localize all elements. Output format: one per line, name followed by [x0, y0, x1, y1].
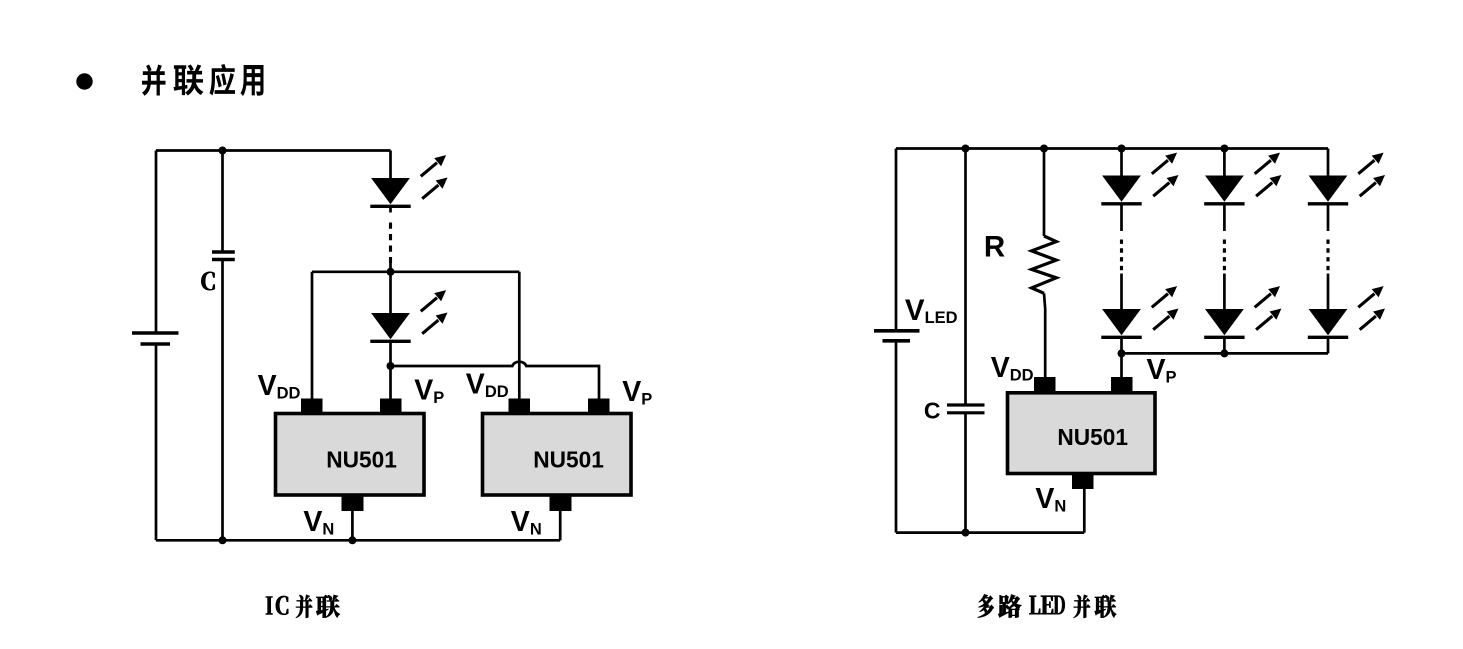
- wire: U2 VDD pin drop: [518, 272, 521, 399]
- resistor R zigzag: [1032, 236, 1057, 293]
- battery B1: [132, 333, 179, 344]
- wire: D2 cathode to node B: [389, 342, 392, 367]
- LED D4 (string 1 bottom): [1101, 286, 1178, 337]
- wire: string 1 cathode stub: [1120, 338, 1123, 354]
- wire: capacitor C2 top lead: [964, 149, 967, 406]
- wire: U1 VN pin drop: [351, 511, 354, 541]
- wire: string 2 anode lead: [1223, 149, 1226, 176]
- wire: top rail left circuit: [156, 149, 391, 152]
- pin U3 VP: [1111, 377, 1133, 393]
- LED D3 (string 1 top): [1101, 153, 1178, 204]
- pin U1 VN: [342, 495, 364, 512]
- node: LED rail / string2 junction: [1220, 349, 1228, 357]
- IC U3 NU501 body: [1008, 393, 1156, 474]
- wire: top rail right circuit: [896, 147, 1328, 150]
- wire: battery B1 bottom lead: [155, 344, 158, 540]
- wire: capacitor C2 bottom lead: [964, 413, 967, 533]
- svg-text:NU501: NU501: [1057, 424, 1128, 450]
- pin U1 VDD: [301, 399, 323, 415]
- pin U2 VP: [588, 399, 610, 415]
- LED D6 (string 2 bottom): [1204, 286, 1281, 337]
- wire: U3 VN pin drop: [1083, 489, 1086, 533]
- wire: resistor R top lead: [1043, 149, 1046, 237]
- wire: string 1 mid wire: [1120, 274, 1123, 310]
- wire: battery B2 top lead: [895, 149, 898, 331]
- bullet point: [76, 73, 92, 89]
- wire: U1 VDD pin drop: [311, 272, 314, 399]
- node A: LED string junction: [387, 268, 395, 276]
- wire: string 2 cathode stub: [1223, 338, 1226, 354]
- node: bottom rail / C1 junction: [219, 536, 227, 544]
- svg-text:VP: VP: [1147, 354, 1177, 387]
- wire: battery B1 top lead: [155, 151, 158, 334]
- wire: bottom rail right circuit: [896, 531, 1084, 534]
- node: top rail / C1 junction: [219, 147, 227, 155]
- svg-text:VDD: VDD: [991, 352, 1034, 385]
- svg-text:VN: VN: [303, 506, 334, 539]
- pin U2 VDD: [509, 399, 531, 415]
- LED D2: [370, 290, 447, 341]
- svg-text:VP: VP: [414, 375, 444, 408]
- caption: 多路 LED 并联: [978, 594, 1116, 617]
- node: top rail / string2 junction: [1220, 145, 1228, 153]
- node: LED rail / string1 junction: [1118, 349, 1126, 357]
- wire: string 3 mid wire: [1327, 274, 1330, 310]
- LED D8 (string 3 bottom): [1308, 286, 1385, 337]
- wire: string 3 anode lead: [1327, 149, 1330, 176]
- node: top rail / R junction: [1040, 145, 1048, 153]
- wire: VDD rail U1-U2 horizontal: [312, 270, 519, 273]
- IC U2 NU501 body: [483, 414, 632, 496]
- capacitor C2: [947, 405, 985, 413]
- wire: capacitor C1 top lead: [221, 151, 224, 253]
- svg-text:NU501: NU501: [326, 447, 397, 473]
- wire: string 2 dashed continuation: [1223, 240, 1226, 271]
- wire: node A to LED D2 anode: [389, 263, 392, 313]
- wire: dashed LED-string continuation left: [389, 223, 392, 264]
- wire: string 2 upper stub: [1223, 204, 1226, 231]
- caption: IC 并联: [266, 595, 340, 618]
- wire: U2 VN pin drop: [559, 511, 562, 541]
- wire: U1 VP pin drop: [389, 366, 392, 399]
- wire: LED D1 anode lead: [389, 151, 392, 179]
- battery B2 (V_LED): [874, 331, 920, 341]
- wire: resistor R bottom lead to U3 VDD: [1044, 293, 1045, 377]
- svg-text:C: C: [924, 397, 941, 423]
- wire: LED bottom rail right circuit: [1122, 352, 1329, 355]
- svg-text:VDD: VDD: [466, 369, 509, 402]
- LED D1: [370, 155, 447, 206]
- wire: string 3 dashed continuation: [1326, 240, 1329, 271]
- svg-text:VDD: VDD: [258, 370, 301, 403]
- wire: string 1 upper stub: [1120, 204, 1123, 231]
- wire: D1 cathode stub: [389, 207, 392, 213]
- wire: string 1 dashed continuation: [1120, 240, 1123, 271]
- svg-text:VN: VN: [511, 506, 542, 539]
- pin U1 VP: [380, 399, 402, 415]
- LED D7 (string 3 top): [1308, 153, 1385, 204]
- svg-text:NU501: NU501: [533, 447, 604, 473]
- node: bottom rail / C2 junction: [962, 529, 970, 537]
- wire: string 2 mid wire: [1223, 274, 1226, 310]
- label C (C1): [201, 272, 215, 290]
- pin U3 VDD: [1034, 377, 1056, 393]
- node: top rail / string1 junction: [1118, 145, 1126, 153]
- IC U1 NU501 body: [276, 414, 425, 496]
- svg-text:VLED: VLED: [905, 294, 958, 327]
- capacitor C1: [212, 252, 235, 260]
- pin U3 VN: [1072, 474, 1094, 490]
- heading text 并联应用: [142, 64, 264, 96]
- node: bottom rail / U1 VN junction: [348, 536, 356, 544]
- wire: battery B2 bottom lead: [895, 341, 898, 533]
- node: top rail / C2 junction: [962, 145, 970, 153]
- svg-text:VP: VP: [622, 376, 652, 409]
- svg-text:VN: VN: [1035, 483, 1066, 516]
- wire: string 3 upper stub: [1327, 204, 1330, 231]
- wire: string 1 anode lead: [1120, 149, 1123, 176]
- wire: string 3 cathode stub: [1327, 338, 1330, 354]
- wire: U3 VP lead from LED rail: [1120, 353, 1123, 377]
- svg-text:R: R: [984, 231, 1005, 264]
- wire: node B to U2 VP with hop over U2 VDD drop: [391, 362, 600, 399]
- wire: bottom rail left circuit: [156, 539, 560, 542]
- node B: D2 cathode junction: [387, 362, 395, 370]
- LED D5 (string 2 top): [1204, 153, 1281, 204]
- pin U2 VN: [550, 495, 572, 512]
- wire: capacitor C1 bottom lead: [221, 260, 224, 541]
